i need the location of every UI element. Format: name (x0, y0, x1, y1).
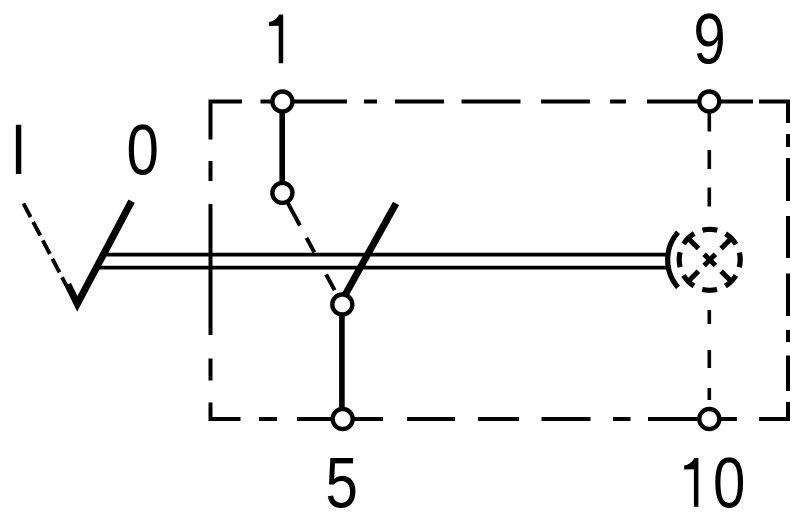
svg-text:0: 0 (713, 443, 745, 523)
svg-text:I: I (11, 109, 27, 189)
svg-text:0: 0 (127, 110, 159, 190)
svg-text:9: 9 (693, 0, 725, 79)
svg-text:5: 5 (326, 443, 358, 523)
